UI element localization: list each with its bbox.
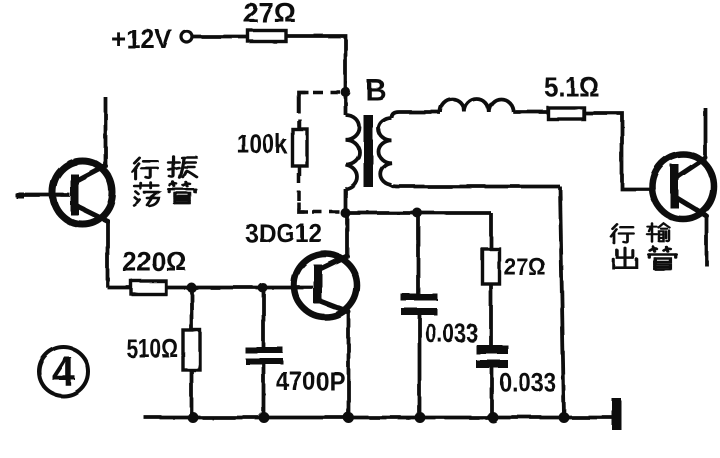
svg-text:27Ω: 27Ω [504, 254, 546, 281]
svg-text:+12V: +12V [111, 24, 172, 54]
svg-text:4700P: 4700P [276, 366, 345, 396]
svg-text:4: 4 [52, 348, 76, 395]
svg-text:100k: 100k [237, 129, 288, 159]
svg-text:510Ω: 510Ω [126, 333, 178, 363]
svg-text:0.033: 0.033 [425, 318, 478, 348]
svg-text:3DG12: 3DG12 [245, 218, 322, 248]
svg-text:220Ω: 220Ω [122, 246, 187, 277]
svg-text:B: B [365, 74, 387, 107]
svg-text:27Ω: 27Ω [243, 0, 296, 28]
svg-text:5.1Ω: 5.1Ω [544, 72, 599, 102]
svg-text:0.033: 0.033 [499, 367, 556, 397]
